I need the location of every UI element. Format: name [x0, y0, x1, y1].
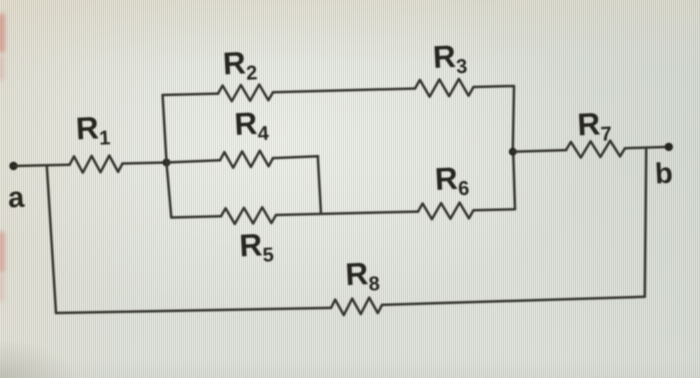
wire R2 to R3: [273, 89, 415, 93]
resistor R8: [331, 298, 382, 316]
wire node A to R4: [167, 160, 221, 162]
pink mark top 2: [0, 55, 4, 81]
pink mark top 1: [0, 13, 5, 53]
wire node A down to lower branch: [167, 163, 172, 218]
resistor R4: [220, 151, 273, 168]
wire bottom right to R8: [382, 297, 645, 305]
svg-text:R2: R2: [222, 44, 258, 86]
wire lower-left corner to R5: [171, 216, 221, 217]
pink mark bottom 2: [0, 274, 4, 302]
wire R3 to top-right corner down to node B: [474, 86, 515, 152]
wire R7 to terminal b: [625, 147, 669, 148]
svg-text:R7: R7: [576, 105, 612, 147]
svg-text:R1: R1: [75, 109, 111, 151]
wire R1 to node A: [123, 163, 167, 164]
resistor R3: [415, 79, 474, 97]
wire R6 up to node B: [474, 152, 516, 211]
terminal a: [9, 162, 17, 170]
resistor R5: [221, 207, 276, 224]
resistor R1: [70, 156, 123, 173]
wire R4 drop to lower branch: [318, 156, 321, 214]
pink mark bottom 1: [0, 231, 5, 273]
wire a to R1: [14, 165, 70, 166]
wire R8 to bottom-left corner: [56, 308, 331, 313]
wire top-left corner to R2: [163, 94, 218, 95]
svg-text:a: a: [7, 182, 26, 215]
wire node A up to top branch: [163, 95, 167, 163]
svg-text:b: b: [654, 158, 673, 191]
wire left side up to a: [47, 165, 56, 313]
resistor R7: [566, 141, 625, 158]
svg-text:R3: R3: [432, 37, 468, 79]
node A junction: [163, 159, 171, 167]
resistor R2: [218, 85, 273, 102]
wire right side down from b junction: [645, 148, 646, 297]
svg-text:R8: R8: [344, 255, 380, 297]
wire R4 to corner: [273, 156, 318, 158]
terminal b: [665, 143, 673, 151]
svg-text:R5: R5: [238, 226, 274, 268]
svg-text:R6: R6: [434, 159, 470, 201]
resistor R6: [418, 203, 474, 220]
svg-text:R4: R4: [233, 104, 270, 146]
node B junction: [509, 148, 517, 156]
wire R5 to R6: [276, 212, 418, 215]
wire node B to R7: [513, 150, 567, 152]
